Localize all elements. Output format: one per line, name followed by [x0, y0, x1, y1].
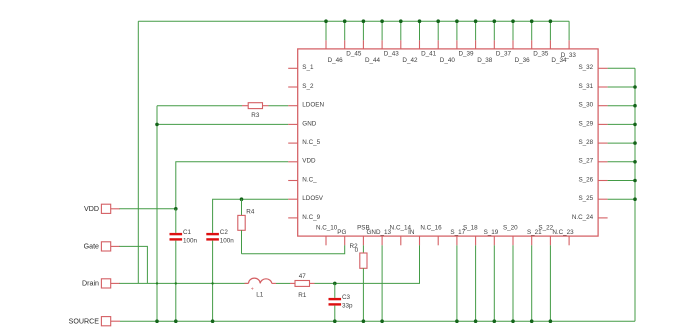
svg-text:S_26: S_26 [578, 176, 593, 183]
pin D_35 (top pin) stub [531, 40, 533, 49]
wire GND_13 pin to SOURCE bus [381, 245, 383, 321]
wire LDO5V pin row to C2 top [213, 199, 289, 233]
wire S_32 to right bus [608, 67, 635, 69]
wire S_27 to right bus [608, 161, 635, 163]
svg-text:S_31: S_31 [578, 83, 593, 90]
junction SOURCE bus at GND_13 [380, 319, 384, 323]
wire bottom SOURCE bus [120, 320, 635, 322]
pin D_41 (top pin) stub [419, 40, 421, 49]
pin N.C_24 (right pin 24) stub [598, 217, 608, 219]
wire VDD terminal stub [111, 208, 120, 210]
terminal Drain [101, 279, 110, 288]
pin S_19 (bottom pin) stub [493, 236, 495, 245]
svg-text:D_44: D_44 [365, 57, 381, 64]
terminal VDD [101, 204, 110, 213]
pin GND_13 (bottom pin) stub [381, 236, 383, 245]
svg-text:D_39: D_39 [459, 51, 475, 58]
svg-text:C2: C2 [220, 229, 229, 236]
pin S_32 (right pin 32) stub [598, 67, 608, 69]
wire VDD pin to C1 top branch [176, 162, 288, 209]
svg-text:Drain: Drain [82, 280, 99, 288]
svg-text:L1: L1 [256, 292, 264, 299]
pin S_1 (left pin 1) stub [288, 67, 298, 69]
junction SOURCE bus at S_20 [511, 319, 515, 323]
wire Drain terminal stub [111, 282, 120, 284]
pin S_28 (right pin 28) stub [598, 142, 608, 144]
pin S_18 (bottom pin) stub [475, 236, 477, 245]
junction on top bus at D_44 [362, 19, 366, 23]
pin S_27 (right pin 27) stub [598, 161, 608, 163]
svg-text:GND_13: GND_13 [367, 229, 392, 236]
svg-text:S_30: S_30 [578, 102, 593, 109]
svg-text:S_32: S_32 [578, 64, 593, 71]
pin N.C_16 (bottom pin) stub [437, 236, 439, 245]
svg-text:D_43: D_43 [384, 51, 400, 58]
wire from top bus corner down to drain wire [137, 21, 139, 283]
wire vertical to D_37 [493, 21, 495, 40]
pin D_34 (top pin) stub [549, 40, 551, 49]
terminal SOURCE [101, 317, 110, 326]
svg-text:LDOEN: LDOEN [302, 102, 324, 109]
junction on top bus at D_38 [474, 19, 478, 23]
resistor R3 [242, 105, 248, 107]
wire SOURCE terminal stub [109, 320, 120, 322]
svg-text:C3: C3 [342, 294, 351, 301]
wire vertical to D_35 [531, 21, 533, 40]
junction SOURCE bus at C3 [333, 319, 337, 323]
capacitor C3 lower lead to SOURCE bus [334, 306, 336, 322]
svg-text:C1: C1 [183, 229, 192, 236]
junction on top bus at D_46 [324, 19, 328, 23]
wire S_30 to right bus [608, 105, 635, 107]
svg-text:D_45: D_45 [346, 51, 362, 58]
resistor R2 0 ohm below PSB pin [362, 245, 364, 253]
pin S_26 (right pin 26) stub [598, 180, 608, 182]
pin IN (bottom pin) stub [419, 236, 421, 245]
svg-text:R1: R1 [298, 292, 307, 299]
wire vertical to D_42 [400, 21, 402, 40]
pin S_29 (right pin 29) stub [598, 123, 608, 125]
svg-text:N.C_16: N.C_16 [420, 225, 442, 232]
junction on top bus at D_34 [549, 19, 553, 23]
wire vertical to D_41 [419, 21, 421, 40]
pin D_43 (top pin) stub [381, 40, 383, 49]
wire S_29 to right bus [608, 123, 635, 125]
pin D_46 (top pin) stub [325, 40, 327, 49]
pin S_2 (left pin 2) stub [288, 86, 298, 88]
wire S_20 pin to SOURCE bus [512, 245, 514, 321]
IC U1 body [298, 49, 598, 236]
wire S_18 pin to SOURCE bus [475, 245, 477, 321]
resistor R4 branch: LDO5V down to PG wire [241, 199, 243, 215]
svg-text:N.C_10: N.C_10 [316, 225, 338, 232]
svg-text:N.C_9: N.C_9 [302, 214, 320, 221]
pin D_45 (top pin) stub [344, 40, 346, 49]
capacitor C2 lower lead to SOURCE bus [212, 241, 214, 322]
svg-text:D_37: D_37 [496, 51, 512, 58]
junction right bus at S_31 [633, 85, 637, 89]
pin PG (bottom pin) stub [344, 236, 346, 245]
wire vertical to D_34 [549, 21, 551, 40]
junction on top bus at D_39 [455, 19, 459, 23]
capacitor C1 branch upper lead [175, 209, 177, 233]
wire R2 bottom to SOURCE bus [362, 268, 364, 321]
junction SOURCE bus at S_22 [549, 319, 553, 323]
wire Gate terminal right then down to drain wire [120, 246, 148, 283]
svg-text:N.C_: N.C_ [302, 176, 317, 183]
wire vertical to D_36 [512, 21, 514, 40]
pin D_44 (top pin) stub [362, 40, 364, 49]
pin LDO5V (left pin 8) stub [288, 198, 298, 200]
resistor R1 47 [290, 282, 295, 284]
wire VDD terminal to C1 junction [120, 208, 176, 210]
inductor L1 [249, 278, 272, 283]
wire GND pin row [157, 123, 288, 125]
svg-text:D_33: D_33 [561, 52, 577, 59]
svg-text:N.C_23: N.C_23 [552, 229, 574, 236]
svg-text:S_22: S_22 [538, 225, 553, 232]
pin S_30 (right pin 30) stub [598, 105, 608, 107]
svg-text:33p: 33p [342, 303, 353, 310]
pin S_20 (bottom pin) stub [512, 236, 514, 245]
junction on top bus at D_41 [418, 19, 422, 23]
svg-text:D_46: D_46 [328, 57, 344, 64]
pin N.C_9 (left pin 9) stub [288, 217, 298, 219]
wire top drain bus [138, 20, 569, 22]
svg-text:D_41: D_41 [421, 51, 437, 58]
capacitor C1 lower lead to SOURCE bus [175, 241, 177, 322]
pin S_31 (right pin 31) stub [598, 86, 608, 88]
wire S_21 pin to SOURCE bus [531, 245, 533, 321]
wire vertical to D_43 [381, 21, 383, 40]
svg-text:100n: 100n [220, 238, 235, 245]
capacitor C3 upper lead [334, 283, 336, 298]
wire vertical to D_33 [568, 21, 570, 40]
junction right bus at S_25 [633, 197, 637, 201]
wire S_19 pin to SOURCE bus [493, 245, 495, 321]
svg-text:N.C_5: N.C_5 [302, 139, 320, 146]
wire vertical to D_45 [344, 21, 346, 40]
junction on top bus at D_42 [399, 19, 403, 23]
pin D_39 (top pin) stub [456, 40, 458, 49]
pin PSB (bottom pin) stub [362, 236, 364, 245]
junction artifact on drain wire [175, 282, 177, 284]
pin S_25 (right pin 25) stub [598, 198, 608, 200]
svg-text:Gate: Gate [84, 243, 99, 251]
wire S_22 pin to SOURCE bus [549, 245, 551, 321]
wire R3 right to LDOEN pin [269, 105, 289, 107]
junction right bus at S_28 [633, 141, 637, 145]
wire Drain terminal to L1 [120, 282, 249, 284]
capacitor C3 33p [329, 298, 342, 300]
svg-text:S_20: S_20 [503, 225, 518, 232]
svg-text:0: 0 [355, 247, 359, 254]
pin VDD (left pin 6) stub [288, 161, 298, 163]
junction LDO5V wire at R4 [240, 197, 244, 201]
svg-text:IN: IN [408, 229, 415, 236]
svg-text:VDD: VDD [84, 205, 99, 213]
wire S_17 pin to SOURCE bus [456, 245, 458, 321]
junction SOURCE bus at S_19 [493, 319, 497, 323]
junction right bus at S_26 [633, 179, 637, 183]
junction SOURCE bus at C2 [211, 319, 215, 323]
junction artifact on drain wire [211, 282, 213, 284]
wire S_26 to right bus [608, 180, 635, 182]
pin GND (left pin 4) stub [288, 123, 298, 125]
wire R4 bottom to PG pin [242, 245, 345, 254]
junction SOURCE bus at S_17 [455, 319, 459, 323]
junction right bus at S_27 [633, 160, 637, 164]
pin N.C_14 (bottom pin) stub [400, 236, 402, 245]
junction GND wire at vertical [155, 123, 159, 127]
inductor L1 left lead [245, 282, 249, 284]
pin D_33 (top pin) stub [568, 40, 570, 49]
wire vertical to D_44 [362, 21, 364, 40]
junction SOURCE bus at S_18 [474, 319, 478, 323]
junction SOURCE bus at S_21 [530, 319, 534, 323]
pin N.C_10 (bottom pin) stub [325, 236, 327, 245]
junction on top bus at D_43 [380, 19, 384, 23]
svg-text:R4: R4 [246, 209, 255, 216]
svg-text:VDD: VDD [302, 158, 316, 165]
junction on top bus at D_36 [511, 19, 515, 23]
pin D_38 (top pin) stub [475, 40, 477, 49]
svg-text:S_19: S_19 [484, 229, 499, 236]
pin D_42 (top pin) stub [400, 40, 402, 49]
wire vertical to D_40 [437, 21, 439, 40]
pin D_36 (top pin) stub [512, 40, 514, 49]
svg-text:R3: R3 [251, 112, 260, 119]
wire vertical to D_39 [456, 21, 458, 40]
svg-text:S_2: S_2 [302, 83, 314, 90]
pin N.C_23 (bottom pin) stub [568, 236, 570, 245]
junction on top bus at D_37 [493, 19, 497, 23]
svg-text:LDO5V: LDO5V [302, 195, 323, 202]
wire right source bus vertical [634, 68, 636, 321]
wire S_25 to right bus [608, 198, 635, 200]
svg-text:S_18: S_18 [463, 225, 478, 232]
svg-text:SOURCE: SOURCE [69, 318, 100, 326]
junction VDD net at C1 [174, 207, 178, 211]
junction right bus at S_29 [633, 123, 637, 127]
svg-text:GND: GND [302, 120, 316, 127]
capacitor C1 100n [170, 233, 183, 235]
junction on top bus at D_40 [436, 19, 440, 23]
junction drain/IN wire at C3 [333, 282, 337, 286]
wire Gate terminal stub [111, 245, 120, 247]
svg-text:D_36: D_36 [515, 57, 531, 64]
inductor L1 right lead [272, 282, 276, 284]
pin D_40 (top pin) stub [437, 40, 439, 49]
wire vertical to D_46 [325, 21, 327, 40]
pin S_17 (bottom pin) stub [456, 236, 458, 245]
svg-text:+: + [251, 287, 254, 293]
wire S_31 to right bus [608, 86, 635, 88]
wire vertical to D_38 [475, 21, 477, 40]
wire LDOEN row to R3 left [157, 105, 242, 107]
junction on top bus at D_45 [343, 19, 347, 23]
junction artifact on drain wire [156, 282, 158, 284]
svg-text:S_29: S_29 [578, 120, 593, 127]
svg-text:D_40: D_40 [440, 57, 456, 64]
junction SOURCE bus at R2 [362, 319, 366, 323]
svg-text:S_1: S_1 [302, 64, 314, 71]
pin LDOEN (left pin 3) stub [288, 105, 298, 107]
wire L1 to R1 [276, 282, 290, 284]
wire LDOEN net: corner at left down the GND/SOURCE vertical [156, 106, 158, 322]
terminal Gate [101, 242, 110, 251]
junction on top bus at D_35 [530, 19, 534, 23]
svg-text:100n: 100n [183, 238, 198, 245]
svg-text:PG: PG [337, 229, 346, 236]
svg-text:S_25: S_25 [578, 195, 593, 202]
wire S_28 to right bus [608, 142, 635, 144]
pin N.C_ (left pin 7) stub [288, 180, 298, 182]
wire R1 to IN pin corner [315, 245, 420, 283]
capacitor C2 100n [206, 233, 219, 235]
pin S_21 (bottom pin) stub [531, 236, 533, 245]
junction SOURCE bus at C1 [174, 319, 178, 323]
svg-text:N.C_24: N.C_24 [572, 214, 594, 221]
svg-text:D_35: D_35 [533, 51, 549, 58]
svg-text:S_28: S_28 [578, 139, 593, 146]
junction SOURCE bus at GND vertical [155, 319, 159, 323]
pin N.C_5 (left pin 5) stub [288, 142, 298, 144]
pin S_22 (bottom pin) stub [549, 236, 551, 245]
svg-text:47: 47 [299, 273, 307, 280]
junction right bus at S_30 [633, 104, 637, 108]
svg-text:S_27: S_27 [578, 158, 593, 165]
pin D_37 (top pin) stub [493, 40, 495, 49]
svg-text:D_38: D_38 [477, 57, 493, 64]
svg-text:D_42: D_42 [402, 57, 418, 64]
